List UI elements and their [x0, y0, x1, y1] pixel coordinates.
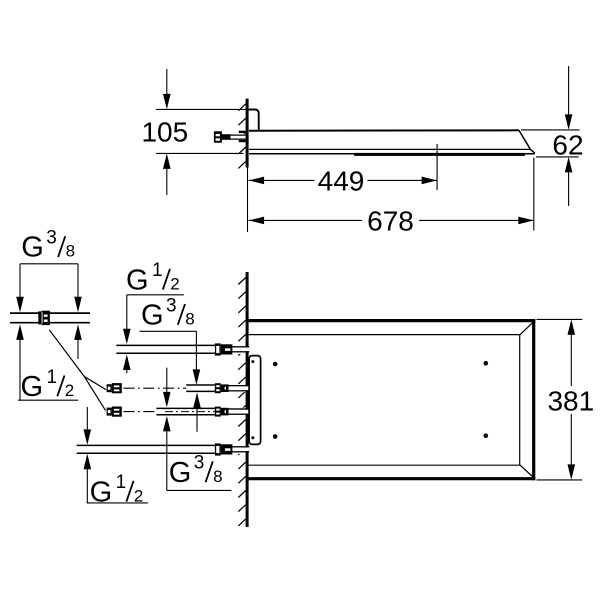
- label G3/8 top-left: [20, 228, 78, 264]
- wall line (plan view): [246, 272, 249, 527]
- svg-text:G: G: [169, 457, 192, 489]
- PLAN VIEW: [77, 272, 594, 527]
- plan outer frame bottom edge: [247, 477, 535, 480]
- svg-text:G: G: [126, 264, 149, 296]
- centre line pipe 2: [124, 387, 247, 389]
- dimension 678: [248, 158, 534, 233]
- nut fitting 2: [215, 383, 229, 393]
- SIDE VIEW: [141, 66, 583, 236]
- nut fitting 1: [215, 343, 233, 355]
- nut fitting 3: [215, 407, 229, 417]
- mounting plate (side view): [248, 110, 258, 131]
- svg-text:3: 3: [194, 453, 205, 474]
- screw hole dots: [273, 362, 278, 367]
- svg-text:105: 105: [141, 117, 188, 148]
- wall line (side view): [246, 99, 249, 168]
- svg-text:G: G: [90, 476, 113, 508]
- label G1/2 mid: [123, 260, 184, 344]
- label G1/2 left: [18, 367, 78, 403]
- nut fitting 4: [215, 443, 233, 455]
- spray face dark band: [354, 153, 525, 156]
- svg-text:449: 449: [318, 165, 365, 196]
- detail dimension arrows: [16, 264, 82, 400]
- pipe1 lower arrow: [123, 355, 131, 374]
- dimension 449: [249, 144, 438, 190]
- plan outer frame top edge: [247, 319, 535, 322]
- enlarged detail pipe: [10, 311, 90, 325]
- svg-text:8: 8: [66, 242, 75, 261]
- pipe 3 (G3/8): [156, 408, 248, 416]
- wall hatching (side view): [238, 104, 246, 169]
- svg-text:G: G: [21, 232, 44, 264]
- mounting plate (plan view): [249, 356, 261, 445]
- pipe 2 (G3/8): [186, 384, 248, 392]
- pipe 1 (G1/2 top): [116, 345, 248, 354]
- svg-text:381: 381: [547, 385, 594, 416]
- svg-text:3: 3: [46, 228, 57, 249]
- svg-text:1: 1: [152, 260, 163, 281]
- pipe 4 (G1/2 bottom): [77, 445, 249, 454]
- svg-text:2: 2: [65, 381, 74, 400]
- svg-text:1: 1: [116, 472, 127, 493]
- LABELS: [10, 228, 231, 509]
- supply elbow fitting (side view): [214, 131, 249, 143]
- centre line pipe 3: [124, 411, 247, 413]
- pipe3 upper arrow: [163, 368, 171, 408]
- svg-text:3: 3: [166, 295, 177, 316]
- svg-text:8: 8: [213, 467, 222, 486]
- pipe stubs passing through wall: [229, 347, 250, 452]
- plate screw dot top: [251, 360, 254, 363]
- dimension 105: [156, 69, 246, 195]
- dimension 381: [537, 319, 583, 480]
- svg-text:1: 1: [47, 367, 58, 388]
- inner frame: [249, 334, 520, 466]
- label G1/2 bottom: [84, 454, 148, 509]
- label G3/8 mid: [140, 295, 201, 385]
- loose connector 2: [107, 383, 122, 393]
- label G3/8 bottom: [163, 416, 231, 491]
- dimension 62: [521, 66, 580, 206]
- pipe4 upper arrow: [84, 407, 92, 445]
- plate screw dot bottom: [251, 436, 254, 439]
- svg-text:G: G: [141, 300, 164, 332]
- loose connector 3: [107, 407, 122, 417]
- chamfer bottom right: [520, 465, 534, 478]
- svg-text:678: 678: [367, 205, 414, 236]
- svg-text:8: 8: [185, 310, 194, 329]
- svg-text:62: 62: [552, 129, 583, 160]
- shower head profile: [249, 130, 535, 154]
- wall hatching (plan view): [238, 278, 246, 526]
- svg-text:G: G: [21, 371, 44, 403]
- pipe2 lower arrow: [193, 393, 201, 432]
- plan outer frame right edge: [532, 319, 535, 480]
- leader line detail to connectors: [49, 330, 106, 411]
- chamfer top right: [520, 322, 534, 335]
- svg-text:2: 2: [170, 274, 179, 293]
